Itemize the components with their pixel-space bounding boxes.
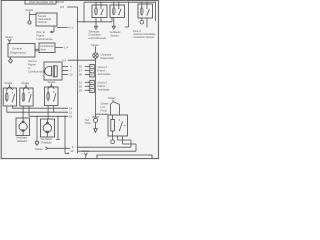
svg-text:Diagnóstico: Diagnóstico: [10, 51, 26, 55]
svg-text:Avaliação: Avaliação: [98, 88, 111, 92]
svg-text:Sinais: Sinais: [5, 81, 13, 85]
svg-text:Sinistro: Sinistro: [111, 34, 120, 37]
svg-text:10: 10: [69, 73, 73, 77]
svg-text:Sinais: Sinais: [91, 43, 99, 47]
svg-text:Veículo: Veículo: [38, 20, 47, 24]
svg-text:3.5: 3.5: [60, 5, 64, 9]
svg-text:Sinais: Sinais: [108, 96, 116, 100]
svg-text:Sinais: Sinais: [26, 8, 34, 12]
svg-text:Sinais: Sinais: [48, 80, 56, 84]
svg-text:Freio: Freio: [85, 121, 91, 125]
svg-text:Freio: Freio: [101, 108, 108, 112]
svg-text:Sinais: Sinais: [35, 147, 43, 151]
svg-text:Diagnóstico: Diagnóstico: [101, 56, 115, 60]
svg-text:Sinais: Sinais: [5, 35, 13, 39]
svg-text:13: 13: [71, 149, 75, 153]
svg-text:4.4: 4.4: [62, 58, 66, 62]
svg-text:Condicionado: Condicionado: [28, 69, 46, 73]
svg-text:Radiador: Radiador: [42, 140, 53, 144]
svg-text:Constante Injetora: Constante Injetora: [134, 36, 155, 39]
svg-text:Radiador: Radiador: [17, 139, 28, 143]
svg-text:Sinais: Sinais: [22, 81, 30, 85]
svg-text:Lâmpada: Lâmpada: [101, 53, 112, 57]
svg-text:Sinais: Sinais: [82, 149, 90, 153]
svg-text:4.6: 4.6: [60, 0, 64, 4]
svg-text:Ten: Ten: [85, 118, 90, 122]
svg-text:Instrumentos: Instrumentos: [37, 37, 54, 41]
svg-text:1.4: 1.4: [64, 46, 68, 50]
svg-text:19: 19: [69, 115, 73, 119]
svg-text:A.Condicionado: A.Condicionado: [89, 37, 107, 40]
svg-text:4.1: 4.1: [69, 26, 73, 30]
svg-text:Sinal: Sinal: [40, 48, 46, 51]
svg-text:Aclimação: Aclimação: [98, 72, 111, 76]
svg-text:Sinal Velocidade Veíc.: Sinal Velocidade Veíc.: [29, 0, 55, 4]
svg-text:28: 28: [79, 73, 83, 77]
svg-text:29: 29: [79, 88, 83, 92]
